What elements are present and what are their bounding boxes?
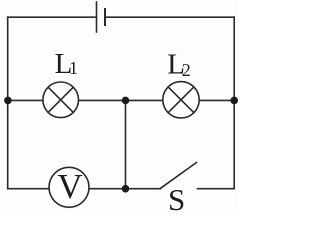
svg-text:1: 1 [69,58,78,78]
svg-text:V: V [57,167,82,206]
svg-text:2: 2 [182,60,191,80]
svg-text:S: S [168,182,185,212]
